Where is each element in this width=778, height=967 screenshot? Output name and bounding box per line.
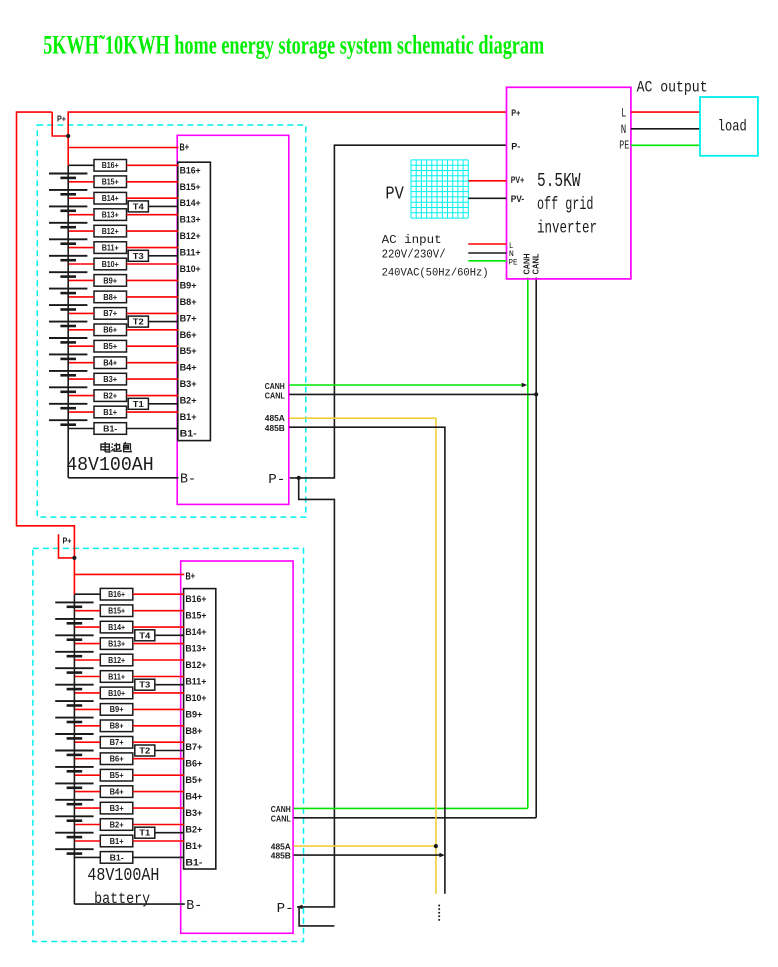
svg-text:B1-: B1- — [180, 429, 197, 440]
svg-text:B15+: B15+ — [108, 606, 125, 616]
svg-text:B9+: B9+ — [180, 280, 197, 291]
svg-text:485A: 485A — [265, 413, 285, 423]
svg-text:B8+: B8+ — [185, 726, 202, 737]
svg-text:B6+: B6+ — [103, 325, 117, 335]
svg-text:T2: T2 — [139, 746, 150, 756]
svg-text:B1-: B1- — [103, 423, 117, 433]
svg-text:B15+: B15+ — [102, 177, 119, 187]
svg-text:B3+: B3+ — [103, 374, 117, 384]
svg-text:T2: T2 — [133, 317, 144, 327]
svg-text:B-: B- — [186, 898, 202, 914]
svg-text:B1-: B1- — [110, 852, 124, 862]
svg-text:T4: T4 — [133, 201, 144, 211]
svg-text:240VAC(50Hz/60Hz): 240VAC(50Hz/60Hz) — [382, 268, 489, 280]
svg-text:B11+: B11+ — [180, 248, 201, 259]
svg-text:48V100AH: 48V100AH — [87, 865, 159, 886]
svg-text:T3: T3 — [133, 251, 144, 261]
svg-text:CANL: CANL — [265, 391, 285, 401]
svg-text:48V100AH: 48V100AH — [66, 454, 154, 476]
svg-text:B1+: B1+ — [185, 841, 202, 852]
svg-text:PE: PE — [619, 139, 629, 153]
svg-text:B13+: B13+ — [102, 210, 119, 220]
svg-text:CANL: CANL — [530, 254, 540, 275]
svg-text:T1: T1 — [133, 399, 144, 409]
svg-text:CANL: CANL — [271, 814, 291, 824]
svg-text:220V/230V/: 220V/230V/ — [382, 247, 446, 261]
svg-text:B9+: B9+ — [103, 275, 117, 285]
svg-text:B5+: B5+ — [103, 341, 117, 351]
svg-text:B16+: B16+ — [108, 589, 125, 599]
svg-text:B10+: B10+ — [102, 259, 119, 269]
svg-text:B4+: B4+ — [185, 792, 202, 803]
svg-text:B8+: B8+ — [110, 721, 124, 731]
svg-text:B11+: B11+ — [185, 677, 206, 688]
svg-text:B9+: B9+ — [185, 709, 202, 720]
svg-text:B13+: B13+ — [108, 639, 125, 649]
svg-text:B11+: B11+ — [108, 671, 125, 681]
svg-text:B2+: B2+ — [110, 819, 124, 829]
svg-text:B9+: B9+ — [110, 704, 124, 714]
svg-text:T3: T3 — [139, 680, 150, 690]
svg-text:B-: B- — [180, 472, 196, 488]
svg-text:B7+: B7+ — [103, 308, 117, 318]
svg-text:B12+: B12+ — [180, 231, 201, 242]
svg-text:B5+: B5+ — [180, 346, 197, 357]
svg-text:B6+: B6+ — [110, 754, 124, 764]
svg-text:B11+: B11+ — [102, 243, 119, 253]
svg-text:B6+: B6+ — [180, 330, 197, 341]
svg-text:B14+: B14+ — [185, 627, 206, 638]
svg-text:B3+: B3+ — [180, 379, 197, 390]
svg-text:B+: B+ — [180, 142, 190, 154]
svg-text:B14+: B14+ — [180, 198, 201, 209]
svg-text:T1: T1 — [139, 828, 150, 838]
svg-text:AC input: AC input — [382, 233, 442, 247]
svg-text:B7+: B7+ — [110, 737, 124, 747]
svg-text:PE: PE — [509, 258, 518, 268]
svg-text:B14+: B14+ — [108, 622, 125, 632]
svg-text:B2+: B2+ — [180, 396, 197, 407]
svg-text:B12+: B12+ — [185, 660, 206, 671]
svg-text:B14+: B14+ — [102, 193, 119, 203]
svg-text:load: load — [718, 117, 747, 135]
svg-text:B16+: B16+ — [102, 160, 119, 170]
svg-text:B16+: B16+ — [185, 594, 206, 605]
svg-text:B+: B+ — [186, 570, 196, 582]
svg-text:inverter: inverter — [537, 219, 597, 239]
svg-text:B5+: B5+ — [110, 770, 124, 780]
svg-text:5KWH˜10KWH home energy storage: 5KWH˜10KWH home energy storage system sc… — [43, 31, 544, 60]
svg-text:B4+: B4+ — [110, 787, 124, 797]
svg-text:B1+: B1+ — [180, 412, 197, 423]
svg-text:PV: PV — [385, 185, 404, 205]
svg-text:B8+: B8+ — [103, 292, 117, 302]
svg-text:B15+: B15+ — [185, 611, 206, 622]
svg-text:battery: battery — [94, 890, 150, 908]
svg-text:B7+: B7+ — [185, 742, 202, 753]
svg-text:N: N — [621, 123, 627, 137]
svg-text:B12+: B12+ — [102, 226, 119, 236]
svg-text:B13+: B13+ — [180, 215, 201, 226]
svg-text:B5+: B5+ — [185, 775, 202, 786]
svg-text:P-: P- — [511, 142, 520, 152]
svg-text:B10+: B10+ — [185, 693, 206, 704]
svg-text:B8+: B8+ — [180, 297, 197, 308]
svg-text:B15+: B15+ — [180, 182, 201, 193]
svg-text:B3+: B3+ — [185, 808, 202, 819]
svg-text:P+: P+ — [511, 108, 520, 118]
svg-text:B4+: B4+ — [180, 363, 197, 374]
svg-text:CANH: CANH — [265, 381, 285, 391]
svg-text:off grid: off grid — [537, 195, 594, 215]
svg-text:B6+: B6+ — [185, 759, 202, 770]
svg-text:P-: P- — [268, 472, 285, 488]
svg-text:B2+: B2+ — [103, 391, 117, 401]
svg-text:B4+: B4+ — [103, 358, 117, 368]
svg-text:AC output: AC output — [637, 78, 708, 96]
svg-text:5.5KW: 5.5KW — [537, 170, 581, 192]
svg-text:B7+: B7+ — [180, 313, 197, 324]
svg-text:B1-: B1- — [185, 857, 202, 868]
svg-text:B1+: B1+ — [103, 407, 117, 417]
svg-text:B12+: B12+ — [108, 655, 125, 665]
svg-text:PV+: PV+ — [511, 175, 525, 185]
svg-text:485B: 485B — [271, 851, 291, 861]
svg-text:L: L — [621, 107, 626, 121]
svg-text:B1+: B1+ — [110, 836, 124, 846]
svg-text:B16+: B16+ — [180, 165, 201, 176]
svg-text:P+: P+ — [57, 114, 66, 124]
svg-text:P+: P+ — [63, 535, 72, 545]
svg-text:PV-: PV- — [511, 194, 525, 204]
svg-text:B13+: B13+ — [185, 644, 206, 655]
svg-text:B3+: B3+ — [110, 803, 124, 813]
svg-text:T4: T4 — [139, 630, 150, 640]
svg-text:P-: P- — [277, 901, 294, 917]
svg-text:485B: 485B — [265, 423, 285, 433]
svg-text:B2+: B2+ — [185, 825, 202, 836]
svg-text:B10+: B10+ — [108, 688, 125, 698]
svg-text:B10+: B10+ — [180, 264, 201, 275]
